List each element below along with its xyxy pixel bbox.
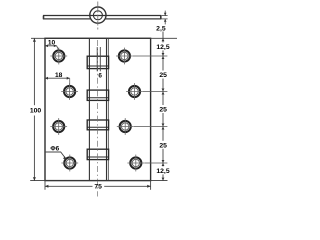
svg-text:100: 100 xyxy=(30,107,42,114)
svg-text:25: 25 xyxy=(159,142,167,149)
knuckle strip left edge xyxy=(88,38,90,180)
top view: horizontal centerline / bar top edge xyxy=(43,15,161,17)
dimension 2,5 (leaf thickness) xyxy=(161,11,167,25)
screw hole H3 xyxy=(61,83,78,100)
chain labels xyxy=(155,42,171,175)
dimension 10 xyxy=(45,45,57,47)
bearing collar 1 xyxy=(87,56,108,68)
screw hole H6 xyxy=(117,118,134,135)
dimension 18 xyxy=(45,77,70,79)
screw hole H7 xyxy=(61,155,78,172)
chain arrows xyxy=(162,38,165,180)
top edge extension line (left + right) xyxy=(31,37,177,39)
svg-text:18: 18 xyxy=(55,72,63,79)
chain extension line row4 xyxy=(144,162,167,164)
screw hole H1 xyxy=(50,48,67,65)
right dimension chain line xyxy=(162,32,164,181)
knuckle dashed centerline xyxy=(97,40,99,197)
bottom edge extension line xyxy=(30,180,167,182)
bearing collar 2 xyxy=(87,90,108,100)
svg-text:Φ6: Φ6 xyxy=(50,145,59,152)
top view: barrel outer circle xyxy=(90,7,106,23)
chain extension line row1 xyxy=(133,55,167,57)
svg-text:10: 10 xyxy=(48,40,56,47)
screw hole H2 xyxy=(116,48,133,65)
svg-text:2,5: 2,5 xyxy=(156,26,166,33)
top view: vertical dashed centerline xyxy=(97,2,99,30)
top view: hinge leaf bar xyxy=(43,16,161,20)
screw hole H4 xyxy=(126,83,143,100)
bearing collar 3 xyxy=(87,120,108,130)
dimension 75 (bottom) xyxy=(45,181,151,190)
knuckle strip right edge xyxy=(106,38,108,180)
top view: pin inner circle xyxy=(93,11,102,20)
svg-text:75: 75 xyxy=(94,183,102,190)
svg-text:12,5: 12,5 xyxy=(156,168,169,175)
screw hole H5 xyxy=(50,118,67,135)
bearing collar 4 xyxy=(87,149,108,159)
pin edge lines xyxy=(96,47,98,71)
right leaf bend line xyxy=(107,38,109,180)
main view: hinge plate outline xyxy=(45,38,151,180)
svg-text:12,5: 12,5 xyxy=(156,44,169,51)
chain extension line row3 xyxy=(134,126,168,128)
svg-text:25: 25 xyxy=(159,72,167,79)
screw hole H8 xyxy=(127,155,144,172)
dimension 100 (left) xyxy=(33,38,35,180)
svg-text:25: 25 xyxy=(159,107,167,114)
chain extension line row2 xyxy=(143,91,167,93)
svg-text:6: 6 xyxy=(98,73,102,80)
